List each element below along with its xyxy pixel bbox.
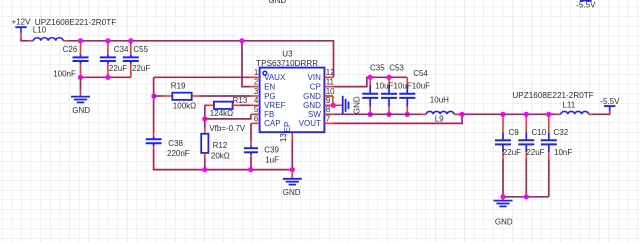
svg-text:100kΩ: 100kΩ xyxy=(173,102,196,111)
svg-text:10nF: 10nF xyxy=(554,148,572,157)
svg-text:+12V: +12V xyxy=(12,18,32,27)
svg-text:10uH: 10uH xyxy=(430,96,449,105)
svg-text:-5.5V: -5.5V xyxy=(600,97,620,106)
svg-text:-5.5V: -5.5V xyxy=(576,1,596,10)
svg-text:EN: EN xyxy=(264,82,275,91)
svg-text:VIN: VIN xyxy=(308,73,322,82)
svg-text:5: 5 xyxy=(254,105,259,114)
svg-text:CP: CP xyxy=(310,82,321,91)
svg-text:13: 13 xyxy=(279,133,288,142)
svg-text:1: 1 xyxy=(254,68,259,77)
svg-text:124kΩ: 124kΩ xyxy=(210,109,233,118)
svg-text:100nF: 100nF xyxy=(53,69,76,78)
svg-text:220nF: 220nF xyxy=(167,149,190,158)
svg-text:10: 10 xyxy=(326,87,335,96)
svg-text:VOUT: VOUT xyxy=(299,119,321,128)
svg-text:GND: GND xyxy=(352,96,361,114)
svg-text:FB: FB xyxy=(264,110,274,119)
svg-text:GND: GND xyxy=(72,106,90,115)
svg-text:22uF: 22uF xyxy=(132,64,150,73)
svg-text:11: 11 xyxy=(326,78,335,87)
svg-text:C35: C35 xyxy=(370,64,385,73)
svg-text:22uF: 22uF xyxy=(503,148,521,157)
svg-text:UPZ1608E221-2R0TF: UPZ1608E221-2R0TF xyxy=(512,91,594,100)
svg-text:C32: C32 xyxy=(554,128,569,137)
svg-text:VREF: VREF xyxy=(264,101,285,110)
svg-text:R12: R12 xyxy=(213,141,228,150)
svg-text:20kΩ: 20kΩ xyxy=(211,151,230,160)
svg-text:9: 9 xyxy=(326,96,331,105)
svg-text:Vfb=-0.7V: Vfb=-0.7V xyxy=(209,124,245,133)
svg-text:10uF: 10uF xyxy=(412,82,430,91)
svg-text:8: 8 xyxy=(326,105,331,114)
svg-text:U3: U3 xyxy=(282,49,293,58)
svg-text:GND: GND xyxy=(268,0,286,5)
svg-text:L10: L10 xyxy=(33,26,47,35)
svg-text:PG: PG xyxy=(264,92,276,101)
svg-text:6: 6 xyxy=(254,114,259,123)
svg-text:C55: C55 xyxy=(133,45,148,54)
svg-text:TPS63710DRRR: TPS63710DRRR xyxy=(256,59,318,68)
svg-text:EP: EP xyxy=(283,122,292,133)
svg-text:CAP: CAP xyxy=(264,119,280,128)
svg-text:GND: GND xyxy=(283,188,301,197)
svg-text:R13: R13 xyxy=(233,96,248,105)
svg-text:UPZ1608E221-2R0TF: UPZ1608E221-2R0TF xyxy=(35,18,117,27)
svg-text:C39: C39 xyxy=(264,146,279,155)
svg-text:SW: SW xyxy=(308,110,321,119)
svg-text:4: 4 xyxy=(254,96,259,105)
svg-text:C53: C53 xyxy=(389,64,404,73)
svg-text:10uF: 10uF xyxy=(394,82,412,91)
svg-text:C9: C9 xyxy=(509,128,520,137)
svg-text:22uF: 22uF xyxy=(109,64,127,73)
svg-text:VAUX: VAUX xyxy=(264,73,286,82)
svg-text:12: 12 xyxy=(326,68,335,77)
svg-text:22uF: 22uF xyxy=(526,148,544,157)
svg-text:R19: R19 xyxy=(171,82,186,91)
svg-text:C34: C34 xyxy=(114,45,129,54)
svg-text:C38: C38 xyxy=(168,139,183,148)
svg-text:L11: L11 xyxy=(562,100,575,109)
svg-text:7: 7 xyxy=(326,114,331,123)
svg-text:1uF: 1uF xyxy=(265,155,279,164)
svg-text:3: 3 xyxy=(254,87,259,96)
svg-text:GND: GND xyxy=(303,101,321,110)
svg-text:L9: L9 xyxy=(435,115,444,124)
svg-text:10uF: 10uF xyxy=(375,82,393,91)
svg-text:C26: C26 xyxy=(63,45,78,54)
svg-text:C10: C10 xyxy=(532,128,547,137)
svg-text:GND: GND xyxy=(303,92,321,101)
svg-text:GND: GND xyxy=(495,218,513,227)
svg-text:C54: C54 xyxy=(413,69,428,78)
svg-text:2: 2 xyxy=(254,78,259,87)
